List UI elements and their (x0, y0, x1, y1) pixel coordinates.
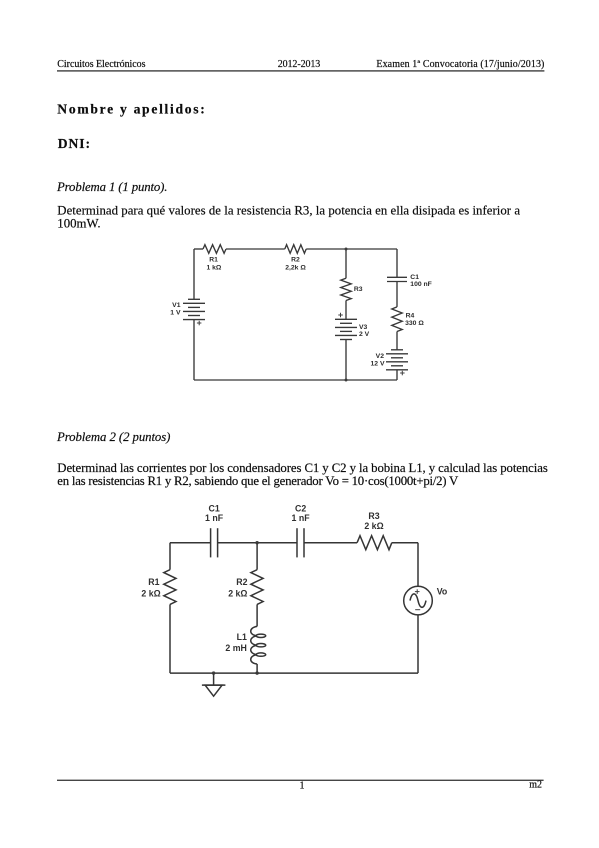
wire bottom rail (194, 379, 397, 381)
wire top right corner down to Vo (417, 543, 419, 587)
svg-text:330 Ω: 330 Ω (405, 320, 424, 327)
svg-text:Problema 1 (1 punto).: Problema 1 (1 punto). (56, 180, 168, 194)
node ground junction dot (212, 671, 215, 674)
svg-text:R1: R1 (209, 257, 218, 264)
wire Vo to bottom right corner (417, 615, 419, 673)
svg-text:1 nF: 1 nF (205, 513, 224, 523)
wire R3 to V3 (345, 301, 347, 320)
svg-text:12 V: 12 V (371, 361, 385, 368)
wire node A down to R3 (345, 249, 347, 278)
svg-text:R2: R2 (236, 577, 247, 587)
wire between R1 and R2 (226, 248, 285, 250)
wire V1 to bottom rail (193, 320, 195, 380)
svg-text:Determinad para qué valores de: Determinad para qué valores de la resist… (57, 204, 520, 218)
svg-text:1 nF: 1 nF (292, 513, 311, 523)
node B junction dot (345, 379, 348, 382)
svg-text:Problema 2 (2 puntos): Problema 2 (2 puntos) (56, 430, 170, 444)
wire V3 to bottom node (345, 340, 347, 381)
wire left rail down to R1 (169, 543, 171, 570)
svg-text:2 kΩ: 2 kΩ (364, 521, 383, 531)
source Vo (404, 586, 433, 615)
wire R2 to L1 (256, 604, 258, 626)
capacitor C2 (297, 528, 304, 557)
svg-text:en las resistencias R1 y R2, s: en las resistencias R1 y R2, sabiendo qu… (57, 474, 459, 488)
svg-text:Determinad las corrientes por: Determinad las corrientes por los conden… (57, 461, 548, 475)
svg-text:V2: V2 (376, 353, 385, 360)
svg-text:L1: L1 (237, 632, 247, 642)
battery V3 (335, 319, 357, 339)
svg-text:2 mH: 2 mH (225, 643, 247, 653)
capacitor C1 (387, 277, 407, 281)
svg-text:2 V: 2 V (359, 331, 370, 338)
svg-text:R1: R1 (148, 577, 159, 587)
resistor R4 (392, 307, 402, 332)
V1 plus sign (197, 321, 202, 326)
node A junction dot (345, 248, 348, 251)
svg-text:2 kΩ: 2 kΩ (228, 588, 247, 598)
inductor L1 (251, 626, 266, 664)
svg-text:100mW.: 100mW. (57, 217, 100, 231)
wire R4 to V2 (396, 332, 398, 350)
svg-text:2 kΩ: 2 kΩ (141, 588, 160, 598)
wire bottom rail (170, 672, 418, 674)
V3 plus sign (338, 313, 343, 318)
svg-text:Circuitos Electrónicos: Circuitos Electrónicos (57, 59, 145, 70)
svg-text:m2: m2 (529, 780, 542, 791)
svg-text:100 nF: 100 nF (410, 281, 432, 288)
svg-text:Nombre y apellidos:: Nombre y apellidos: (57, 102, 205, 117)
wire R1 to bottom left corner (169, 604, 171, 673)
wire right rail down to C1 (396, 249, 398, 277)
resistor R2 (251, 570, 263, 605)
svg-text:2012-2013: 2012-2013 (278, 59, 321, 70)
wire R3 to top right corner (392, 542, 418, 544)
svg-text:R4: R4 (406, 313, 415, 320)
wire node A to top right corner (346, 248, 397, 250)
V2 plus sign (400, 371, 405, 376)
wire top rail (194, 248, 203, 250)
wire V2 to bottom rail (396, 370, 398, 380)
svg-text:1: 1 (300, 781, 305, 792)
node M junction dot (255, 541, 258, 544)
svg-text:DNI:: DNI: (58, 136, 90, 151)
svg-text:C1: C1 (208, 503, 219, 513)
svg-text:C2: C2 (295, 503, 306, 513)
wire L1 to bottom node (256, 664, 258, 673)
wire C1 to R4 (396, 282, 398, 307)
svg-text:Examen 1ª Convocatoria (17/jun: Examen 1ª Convocatoria (17/junio/2013) (376, 59, 544, 70)
resistor R2 (285, 245, 306, 254)
resistor R1 (203, 245, 226, 254)
svg-text:R3: R3 (368, 511, 379, 521)
capacitor C1 (211, 528, 218, 557)
wire R2 to node A (306, 248, 346, 250)
node L1 bottom junction dot (255, 671, 258, 674)
header rule (57, 70, 544, 71)
resistor R1 (164, 570, 176, 605)
svg-text:1 V: 1 V (170, 310, 181, 317)
svg-text:V3: V3 (359, 324, 368, 331)
svg-text:C1: C1 (410, 274, 419, 281)
wire left rail down to V1 (193, 249, 195, 299)
svg-text:2,2k Ω: 2,2k Ω (285, 264, 306, 271)
ground (202, 673, 226, 696)
footer rule (57, 780, 544, 781)
wire C1 to node M (218, 542, 297, 544)
battery V1 (183, 299, 205, 319)
svg-text:Vo: Vo (437, 587, 448, 597)
resistor R3 (357, 536, 392, 550)
wire node M down to R2 (256, 543, 258, 570)
svg-text:R2: R2 (291, 257, 300, 264)
svg-text:V1: V1 (172, 302, 181, 309)
svg-text:1 kΩ: 1 kΩ (206, 264, 221, 271)
svg-text:R3: R3 (354, 286, 363, 293)
wire top left corner to C1 (170, 542, 211, 544)
resistor R3 (341, 278, 351, 300)
wire C2 to R3 (304, 542, 357, 544)
battery V2 (386, 350, 408, 370)
